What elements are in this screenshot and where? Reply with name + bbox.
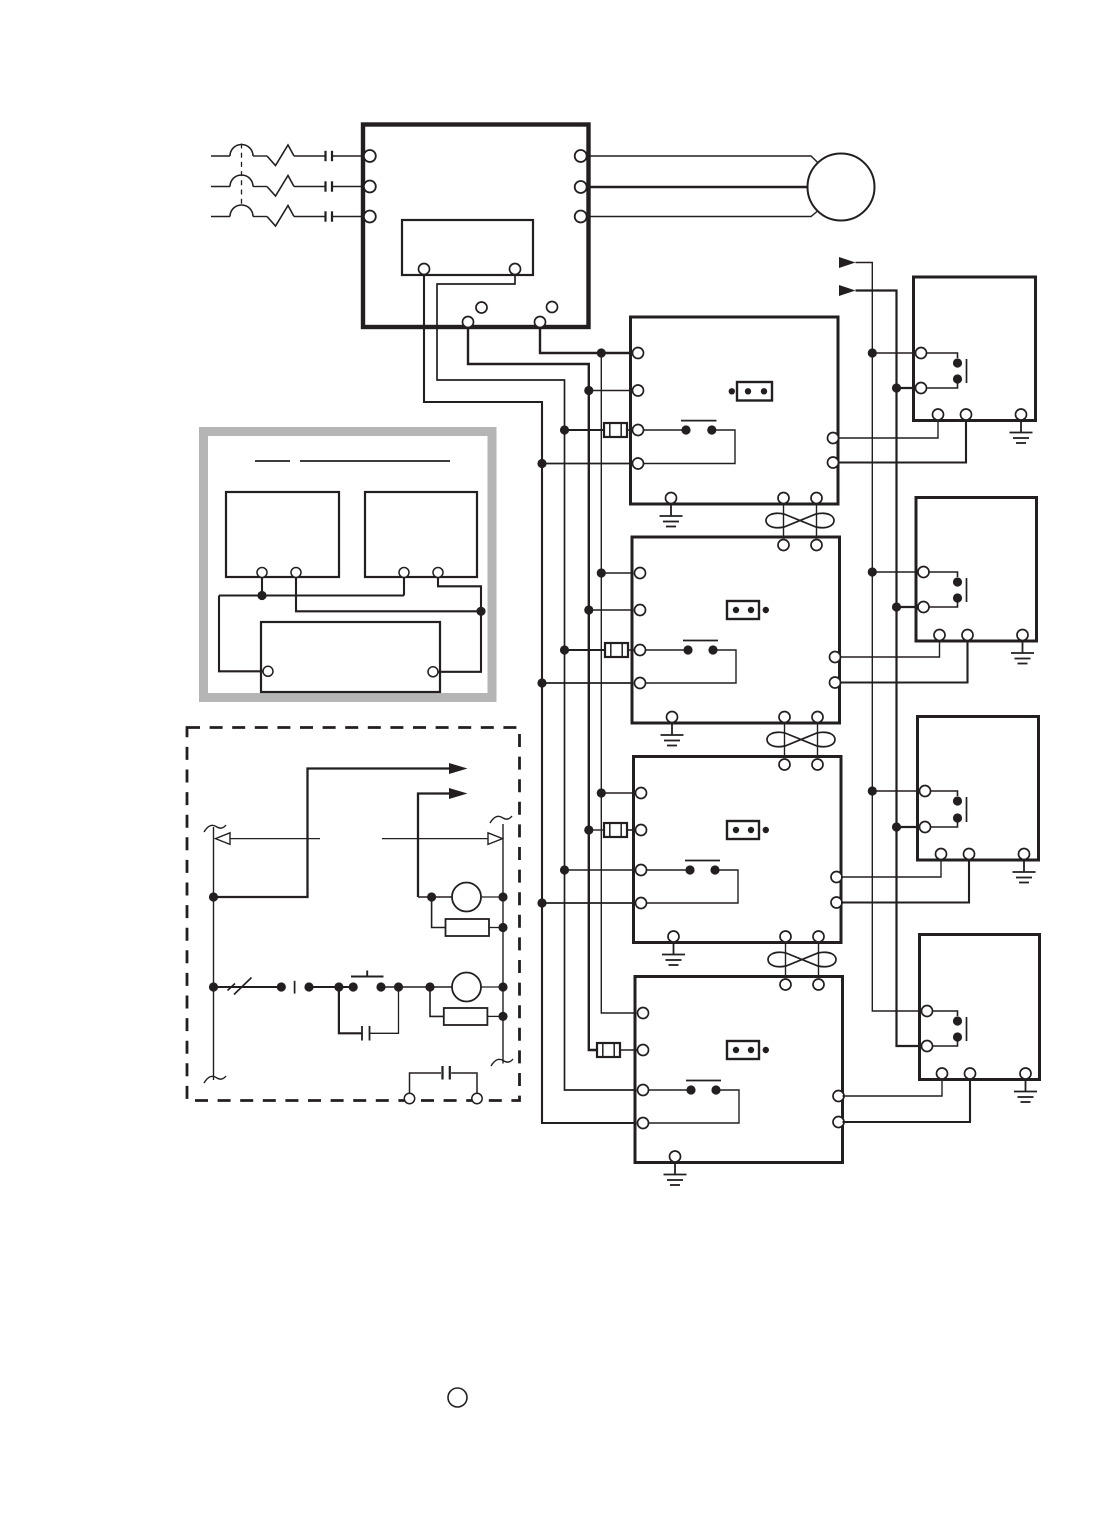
wire module A pin2 to net Q	[296, 577, 481, 611]
relay contact K4	[928, 1011, 967, 1046]
terminal K2 output 1	[934, 630, 945, 641]
terminal K3 output 1	[936, 849, 947, 860]
resistor R2	[444, 1008, 488, 1025]
terminal U5 earth	[670, 1151, 681, 1162]
ground relay K1	[1010, 422, 1033, 443]
wire right supply rail	[502, 824, 504, 1064]
wire bus E	[856, 263, 928, 1012]
ground U2	[660, 506, 683, 527]
wire fuse F1 to terminal 3	[627, 429, 638, 431]
wire bus B to unit3 fuse	[589, 829, 604, 831]
wire switch S4 return to terminal 4	[643, 1090, 739, 1123]
terminal U3-4	[635, 678, 646, 689]
connector CN2	[727, 601, 759, 619]
run capacitor C2	[410, 1066, 478, 1094]
terminal U3 output 2	[830, 677, 841, 688]
relay contact K1	[922, 353, 967, 388]
terminal U4 link out A	[780, 931, 791, 942]
wire bus F to relay K1	[897, 387, 922, 389]
wire L1 supply lead	[211, 155, 230, 157]
contact SW1	[294, 981, 296, 994]
ground U4	[662, 944, 685, 965]
terminal U2 output 2	[828, 457, 839, 468]
terminal U4 link in B	[812, 759, 823, 770]
option unit boundary (dashed)	[187, 728, 520, 1101]
terminal U5-4	[638, 1118, 649, 1129]
node bus E / relay K3 tap	[868, 786, 877, 795]
wire L2 supply lead	[211, 186, 230, 188]
node right rail / R2	[498, 1012, 507, 1021]
relay box K2	[916, 498, 1037, 642]
rail break mark bottom left	[204, 1076, 226, 1083]
node bus B / unit2 tap	[584, 605, 593, 614]
wire L1	[294, 155, 326, 157]
terminal capacitor C2 b	[472, 1093, 482, 1103]
terminal K4 earth	[1020, 1068, 1031, 1079]
terminal U2 link out A	[778, 493, 789, 504]
terminal U1 board pin 1	[419, 264, 430, 275]
terminal U1 output 1	[575, 150, 587, 162]
wire bus B to unit1 terminal 2	[589, 390, 638, 392]
contact L1	[326, 151, 333, 161]
node bus A / unit3 tap	[597, 788, 606, 797]
indoor unit U5 enclosure	[635, 977, 843, 1163]
wire bus B from U1 power terminal	[468, 327, 597, 1050]
wire module B pin1 down	[403, 577, 405, 596]
terminal K1 earth	[1016, 409, 1027, 420]
terminal U3 link in A	[778, 540, 789, 551]
node contact SW1 b	[304, 982, 313, 991]
terminal K2 earth	[1017, 630, 1028, 641]
wire U1 to motor phase 1	[589, 156, 821, 165]
node right rail / FM2	[498, 982, 507, 991]
node bus A / unit1 tap	[597, 348, 606, 357]
terminal U1 input L3	[364, 211, 376, 223]
wire bus A to unit3 terminal 1	[601, 792, 641, 794]
node right rail / R1	[498, 923, 507, 932]
wire L2	[294, 186, 326, 188]
terminal module B pin2	[433, 568, 443, 578]
node rung1 junction	[427, 892, 436, 901]
terminal module B pin1	[399, 568, 409, 578]
terminal K3 output 2	[964, 849, 975, 860]
node pushbutton PB b	[376, 982, 385, 991]
wire relay K2 output 2 to unit U3	[840, 641, 968, 683]
twisted pair symbol 2	[767, 732, 835, 746]
node rung2 junction	[425, 982, 434, 991]
node capacitor branch a	[334, 982, 343, 991]
twisted pair symbol 1	[766, 513, 834, 527]
wire bus F to relay K3	[897, 826, 922, 828]
relay box K3	[918, 717, 1039, 861]
wire relay K1 output 2 to unit U2	[838, 421, 966, 463]
wire module A pin1 down	[261, 577, 263, 596]
wire to resistor R2	[430, 987, 444, 1016]
continuation arrow net E (source)	[449, 763, 468, 774]
terminal U2 earth	[666, 493, 677, 504]
wire relay K3 output 2 to unit U4	[841, 860, 969, 903]
ground relay K3	[1013, 862, 1036, 883]
wire net F from fan rung	[418, 794, 449, 898]
connector CN3	[727, 821, 759, 839]
thermal cutout TH	[228, 978, 252, 995]
switch S2	[643, 641, 718, 655]
node bus F / relay K1 tap	[892, 383, 901, 392]
terminal K2 coil 2	[918, 602, 929, 613]
wire net E from left rail	[214, 769, 450, 898]
circuit breaker pole L3	[230, 205, 253, 216]
switch S3	[644, 861, 720, 875]
terminal U2-4	[633, 458, 644, 469]
twisted pair symbol 3	[768, 952, 836, 966]
node bus A / unit2 tap	[597, 568, 606, 577]
node bus B / unit1 tap	[584, 386, 593, 395]
terminal K1 coil 2	[916, 383, 927, 394]
terminal U3-1	[635, 568, 646, 579]
fuse F4	[597, 1043, 620, 1057]
terminal U3 link out B	[812, 712, 823, 723]
ground U3	[661, 725, 684, 746]
terminal U4 link in A	[779, 759, 790, 770]
terminal U5 link in B	[813, 979, 824, 990]
terminal U1 spare 2	[547, 302, 558, 313]
footnote marker circle	[448, 1388, 467, 1407]
terminal U5-2	[638, 1045, 649, 1056]
relay box K4	[920, 935, 1040, 1080]
wire fuse F4 to terminal 2	[620, 1049, 643, 1051]
terminal U3 link out A	[779, 712, 790, 723]
breaker element L1	[267, 145, 294, 166]
rail break mark bottom right	[491, 1059, 513, 1066]
inner control board of U1	[402, 220, 533, 275]
rail break mark top right	[490, 816, 512, 823]
wire phase reference right	[382, 838, 488, 840]
node CN4 pin	[763, 1047, 769, 1053]
wire link pair 3 conductor A	[785, 943, 787, 977]
terminal U4 link out B	[813, 931, 824, 942]
wire rung1 to fan motor FM1	[418, 896, 452, 898]
wire fuse F3 to terminal 2	[627, 829, 641, 831]
wire link pair 1 conductor A	[783, 504, 785, 537]
wire fuse F2 to terminal 3	[628, 649, 640, 651]
terminal U1 output 2	[575, 181, 587, 193]
title underline segment 1	[255, 460, 290, 462]
wire rung2 from left rail	[214, 986, 282, 988]
terminal U5-1	[638, 1008, 649, 1019]
wire relay K2 output 1 to unit U3	[840, 641, 940, 657]
circuit breaker pole L2	[230, 175, 253, 187]
wire net P to module C pin1	[219, 596, 263, 672]
terminal U1 spare 1	[476, 302, 487, 313]
wire rung2 segment	[309, 986, 353, 988]
wire relay K4 output 1 to unit U5	[843, 1080, 943, 1097]
terminal K2 output 2	[962, 630, 973, 641]
terminal U4-3	[636, 865, 647, 876]
breaker element L2	[267, 176, 294, 197]
wire U1 to motor phase 3	[589, 209, 821, 217]
node bus F / relay K2 tap	[892, 602, 901, 611]
wire L2	[332, 186, 364, 188]
terminal K4 coil 2	[922, 1041, 933, 1052]
wire bus A vertical run	[601, 353, 643, 1013]
terminal U2 link out B	[811, 493, 822, 504]
wire link pair 1 conductor B	[816, 504, 818, 537]
connector CN1	[737, 382, 772, 401]
terminal U3 output 1	[830, 652, 841, 663]
pushbutton PB	[351, 971, 384, 977]
switch S1	[643, 421, 717, 435]
wire bus E to relay K3	[872, 790, 921, 792]
wire R2 to right rail	[487, 1015, 503, 1017]
wire module B pin2 / net Q to module C pin2	[438, 577, 481, 672]
wire switch S3 return to terminal 4	[641, 870, 738, 903]
node bus D / unit1 tap	[537, 459, 546, 468]
terminal K3 earth	[1019, 849, 1030, 860]
rail break mark top left	[204, 825, 226, 832]
wire relay K1 output 1 to unit U2	[838, 421, 938, 439]
wire bus A to unit2 terminal 1	[601, 572, 640, 574]
fuse F2	[605, 643, 628, 657]
terminal U1 output 3	[575, 211, 587, 223]
terminal module A pin2	[291, 568, 301, 578]
wire relay K3 output 1 to unit U4	[841, 860, 941, 877]
terminal U3 earth	[667, 712, 678, 723]
relay contact K2	[924, 572, 967, 607]
wire bus E to relay K2	[872, 571, 921, 573]
wire FM1 to right rail	[481, 896, 503, 898]
relay box K1	[914, 277, 1036, 421]
ground U5	[664, 1164, 687, 1185]
terminal U4 output 2	[831, 897, 842, 908]
indoor unit U4 enclosure	[634, 757, 842, 943]
wire bus E to relay K1	[872, 352, 921, 354]
title underline segment 2	[300, 460, 450, 462]
wire left supply rail	[213, 827, 215, 1080]
terminal U2-3	[633, 425, 644, 436]
node net P junction	[257, 591, 266, 600]
capacitor C1 branch	[339, 987, 399, 1041]
terminal U4 output 1	[831, 872, 842, 883]
node left rail / net E	[209, 892, 218, 901]
wire link pair 3 conductor B	[818, 943, 820, 977]
node left rail / rung2	[209, 982, 218, 991]
connector CN4	[727, 1041, 759, 1059]
node bus F / relay K3 tap	[892, 822, 901, 831]
terminal U2-1	[633, 348, 644, 359]
terminal U5 output 1	[833, 1091, 844, 1102]
contact L3	[326, 211, 333, 221]
wire L1	[253, 155, 267, 157]
circuit breaker pole L1	[230, 145, 253, 157]
terminal K4 output 1	[937, 1068, 948, 1079]
wire link pair 2 conductor A	[784, 723, 786, 757]
wire L3 supply lead	[211, 216, 230, 218]
wire bus D from U1 control board	[424, 275, 643, 1123]
wire bus C to unit3 terminal 3	[565, 869, 642, 871]
wire L3	[253, 216, 267, 218]
breaker mechanical link (dashed)	[241, 144, 243, 208]
switch S4	[646, 1081, 721, 1095]
terminal U5-3	[638, 1085, 649, 1096]
controller group frame	[204, 432, 493, 698]
terminal K1 output 2	[961, 409, 972, 420]
terminal U4-4	[636, 898, 647, 909]
breaker element L3	[267, 206, 294, 227]
wire link pair 2 conductor B	[817, 723, 819, 757]
motor M	[808, 154, 875, 221]
terminal U5 link in A	[780, 979, 791, 990]
terminal U1 power out 1	[463, 317, 474, 328]
wire bus C to unit2 fuse	[565, 649, 606, 651]
wire L3	[294, 216, 326, 218]
fan motor FM2	[452, 973, 481, 1002]
controller base module C	[261, 622, 440, 692]
wire L1	[332, 155, 364, 157]
contact L2	[326, 181, 333, 191]
node capacitor branch b	[394, 982, 403, 991]
terminal K3 coil 2	[920, 822, 931, 833]
wire FM2 to right rail	[481, 986, 503, 988]
ground relay K2	[1011, 643, 1034, 664]
wire relay K4 output 2 to unit U5	[843, 1080, 971, 1123]
node bus C / unit3 tap	[560, 865, 569, 874]
continuation arrow net F (source)	[449, 788, 468, 799]
node bus C / unit2 tap	[560, 645, 569, 654]
node CN2 pin	[763, 607, 769, 613]
wire switch S2 return to terminal 4	[640, 650, 736, 683]
node CN1 pin	[729, 388, 735, 394]
wire L3	[332, 216, 364, 218]
wire rung2 to fan motor FM2	[381, 986, 452, 988]
terminal U5 output 2	[833, 1117, 844, 1128]
wire bus C to unit1 fuse	[565, 429, 605, 431]
controller module A	[226, 492, 339, 577]
node pushbutton PB a	[349, 982, 358, 991]
node right rail / FM1	[498, 892, 507, 901]
terminal K4 coil 1	[922, 1006, 933, 1017]
terminal K4 output 2	[965, 1068, 976, 1079]
terminal U4 earth	[668, 931, 679, 942]
wire bus D to unit3 terminal 4	[542, 902, 641, 904]
terminal U4-1	[636, 788, 647, 799]
node bus E / relay K1 tap	[868, 348, 877, 357]
inverter unit U1	[363, 125, 589, 328]
resistor R1	[446, 919, 490, 936]
ground relay K4	[1014, 1081, 1037, 1102]
terminal K2 coil 1	[918, 567, 929, 578]
indoor unit U2 enclosure	[631, 317, 839, 504]
fan motor FM1	[452, 883, 481, 912]
node net Q junction	[476, 607, 485, 616]
wire phase reference left	[230, 838, 320, 840]
terminal K1 output 1	[933, 409, 944, 420]
terminal U1 board pin 2	[510, 264, 521, 275]
terminal capacitor C2 a	[404, 1093, 414, 1103]
fuse F1	[604, 423, 627, 437]
node bus C / unit1 tap	[560, 425, 569, 434]
wire to resistor R1	[432, 897, 446, 928]
wire bus D to unit1 terminal 4	[542, 463, 638, 465]
terminal U2 output 1	[828, 433, 839, 444]
terminal module A pin1	[257, 568, 267, 578]
relay contact K3	[926, 791, 967, 827]
terminal K1 coil 1	[916, 348, 927, 359]
controller module B	[365, 492, 477, 577]
wire L2	[253, 186, 267, 188]
terminal module C pin2	[428, 667, 438, 677]
open arrow into left rail	[216, 833, 231, 845]
indoor unit U3 enclosure	[632, 537, 840, 723]
wire net P	[219, 594, 404, 596]
continuation arrow net E	[839, 257, 856, 268]
open arrow into right rail	[488, 833, 503, 845]
node bus B / unit3 tap	[584, 825, 593, 834]
wire bus B to unit2 terminal 2	[589, 609, 640, 611]
terminal U3-3	[635, 645, 646, 656]
node contact SW1 a	[277, 982, 286, 991]
wire bus C from U1 control board	[437, 275, 643, 1090]
terminal U1 input L1	[364, 150, 376, 162]
wire bus A feed from U1 power terminal	[540, 327, 638, 353]
node bus D / unit3 tap	[537, 898, 546, 907]
terminal U1 power out 2	[535, 317, 546, 328]
fuse F3	[604, 823, 627, 837]
wire switch S1 return to terminal 4	[638, 430, 735, 464]
node bus D / unit2 tap	[537, 678, 546, 687]
wire bus F	[856, 291, 928, 1047]
node bus E / relay K2 tap	[868, 567, 877, 576]
node CN3 pin	[763, 827, 769, 833]
wire bus F to relay K2	[897, 606, 922, 608]
terminal U3 link in B	[811, 540, 822, 551]
terminal U3-2	[635, 605, 646, 616]
wire R1 to right rail	[489, 927, 503, 929]
terminal U2-2	[633, 385, 644, 396]
wire bus D to unit2 terminal 4	[542, 682, 640, 684]
terminal module C pin1	[263, 666, 273, 676]
wire U1 to motor phase 2	[589, 186, 808, 188]
terminal K3 coil 1	[920, 786, 931, 797]
continuation arrow net F	[839, 285, 856, 296]
terminal U1 input L2	[364, 181, 376, 193]
terminal U4-2	[636, 825, 647, 836]
